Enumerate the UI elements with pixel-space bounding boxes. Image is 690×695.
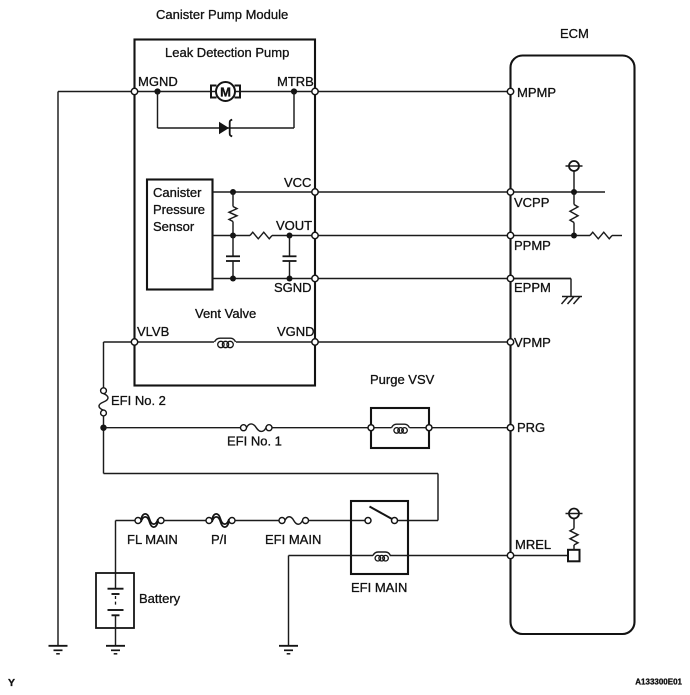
pin PPMP circle [507, 232, 513, 238]
svg-text:EFI No. 2: EFI No. 2 [111, 393, 166, 408]
svg-text:VCPP: VCPP [514, 195, 549, 210]
capacitor C2 [283, 236, 297, 279]
motor M1 pump [211, 82, 240, 101]
svg-text:MREL: MREL [515, 537, 551, 552]
ground G3 [279, 646, 298, 654]
fuse F3 EFI MAIN [279, 517, 309, 525]
node VCPP internal junction [571, 189, 577, 195]
svg-text:EPPM: EPPM [514, 280, 551, 295]
pin VSV left circle [368, 425, 374, 431]
svg-text:VOUT: VOUT [276, 218, 312, 233]
svg-text:PPMP: PPMP [514, 238, 551, 253]
wire fuse to purge VSV [272, 427, 371, 429]
wire relay coil left [289, 555, 374, 557]
svg-text:Vent Valve: Vent Valve [195, 306, 256, 321]
Purge VSV box [371, 408, 429, 448]
fusible link FL MAIN [135, 514, 164, 527]
pin EPPM circle [507, 275, 513, 281]
wire PPMP stub [612, 235, 622, 237]
wire MGND-MTRB motor row [135, 91, 316, 93]
wire relay feed top [104, 473, 439, 475]
pin SGND circle [312, 275, 318, 281]
relay EFI MAIN box [351, 501, 408, 574]
pin VGND circle [312, 339, 318, 345]
fuse F1 EFI No.2 [99, 388, 108, 416]
svg-text:MPMP: MPMP [517, 85, 556, 100]
wire P/I to EFI MAIN fuse [235, 520, 279, 522]
wire SGND row [213, 278, 572, 280]
svg-text:EFI MAIN: EFI MAIN [351, 580, 407, 595]
power source B+ symbol VCPP [566, 161, 583, 192]
svg-text:MGND: MGND [138, 74, 178, 89]
diode D1 [219, 120, 232, 137]
ground G1 [49, 646, 68, 654]
svg-text:Purge VSV: Purge VSV [370, 372, 435, 387]
node VOUT left junction [230, 233, 236, 239]
svg-text:A133300E01: A133300E01 [635, 678, 682, 687]
chassis ground EPPM [562, 297, 583, 305]
node VCC junction [230, 189, 236, 195]
inductor L2 purge VSV coil [392, 424, 410, 433]
wire VLVB branch down [103, 342, 105, 388]
pin MPMP circle [507, 88, 513, 94]
fusible link P/I [206, 514, 235, 527]
svg-text:ECM: ECM [560, 26, 589, 41]
relay switch blade [370, 507, 393, 520]
wire VSV internal left [374, 427, 392, 429]
wire relay coil to MREL [390, 555, 511, 557]
wire MGND to left rail [58, 91, 135, 93]
Canister Pressure Sensor box [147, 180, 213, 290]
relay switch contacts [365, 518, 398, 524]
inductor L1 vent valve coil [215, 338, 236, 347]
fuse F2 EFI No.1 [241, 424, 273, 432]
wire battery to ground [115, 615, 117, 645]
svg-text:P/I: P/I [211, 532, 227, 547]
svg-text:VPMP: VPMP [514, 335, 551, 350]
resistor R1 sensor pull-up [229, 192, 237, 236]
ground G2 [106, 646, 125, 654]
svg-text:Pressure: Pressure [153, 202, 205, 217]
wire EFI MAIN fuse to relay [309, 520, 366, 522]
svg-text:EFI MAIN: EFI MAIN [265, 532, 321, 547]
node MTRB junction [291, 88, 297, 94]
resistor R5 MREL pull-up [570, 519, 578, 550]
node SGND right junction [287, 276, 293, 282]
svg-text:Battery: Battery [139, 591, 181, 606]
svg-text:M: M [220, 84, 231, 99]
node MGND junction [154, 88, 160, 94]
wire fuse to junction [103, 416, 105, 474]
wire VGND to VPMP [236, 341, 511, 343]
wire battery to relay row [116, 520, 136, 522]
wire MREL internal [514, 555, 569, 557]
node VOUT right junction [287, 233, 293, 239]
svg-text:Leak Detection Pump: Leak Detection Pump [165, 45, 289, 60]
pin PRG circle [507, 425, 513, 431]
resistor R2 VOUT series [250, 232, 272, 239]
wire VOUT row [213, 235, 251, 237]
svg-text:VCC: VCC [284, 175, 311, 190]
svg-text:Canister: Canister [153, 185, 202, 200]
pin MTRB circle [312, 88, 318, 94]
wire VSV to PRG [432, 427, 511, 429]
wire VCC row [213, 191, 606, 193]
wire diode branch bottom [158, 127, 295, 129]
svg-text:Sensor: Sensor [153, 219, 195, 234]
driver block MREL [568, 550, 580, 562]
wire EPPM internal [514, 279, 572, 297]
pin MREL circle [507, 552, 513, 558]
pin VPMP circle [507, 339, 513, 345]
node SGND left junction [230, 276, 236, 282]
svg-text:VGND: VGND [277, 324, 315, 339]
wire relay coil ground drop [288, 556, 290, 646]
battery BT1 cells [108, 589, 124, 616]
pin MGND circle [131, 88, 137, 94]
capacitor C1 [226, 236, 240, 279]
svg-text:PRG: PRG [517, 420, 545, 435]
pin VCC circle [312, 189, 318, 195]
svg-text:SGND: SGND [274, 280, 312, 295]
Battery box [96, 573, 134, 628]
svg-text:MTRB: MTRB [277, 74, 314, 89]
pin VOUT circle [312, 232, 318, 238]
wire VSV internal right [410, 427, 427, 429]
wire VLVB row left [104, 341, 215, 343]
Canister Pump Module box [135, 40, 316, 386]
svg-text:Y: Y [8, 677, 15, 689]
wire VOUT to PPMP [272, 235, 590, 237]
wire battery drop [115, 521, 117, 589]
wire relay contact stub [398, 520, 439, 522]
wire FL MAIN to P/I [164, 520, 206, 522]
wire diode branch left [157, 92, 159, 129]
svg-text:Canister Pump Module: Canister Pump Module [156, 7, 288, 22]
pin VSV right circle [426, 425, 432, 431]
wire EFI No.1 row [104, 427, 241, 429]
ECM box U1 [511, 56, 635, 635]
node EFI No.1 junction [100, 425, 106, 431]
resistor R4 PPMP series [590, 232, 612, 239]
power source B+ symbol MREL [566, 509, 583, 519]
svg-text:FL MAIN: FL MAIN [127, 532, 178, 547]
pin VLVB circle [131, 339, 137, 345]
pin VCPP circle [507, 189, 513, 195]
wire left ground rail [57, 92, 59, 646]
svg-text:EFI No. 1: EFI No. 1 [227, 434, 282, 449]
resistor R3 VCPP-PPMP [570, 192, 578, 236]
wire relay feed right drop [437, 474, 439, 521]
inductor L3 relay coil [373, 552, 390, 561]
node PPMP internal junction [571, 233, 577, 239]
wire diode branch right [293, 92, 295, 129]
wire MTRB to MPMP [315, 91, 511, 93]
svg-text:VLVB: VLVB [137, 324, 169, 339]
